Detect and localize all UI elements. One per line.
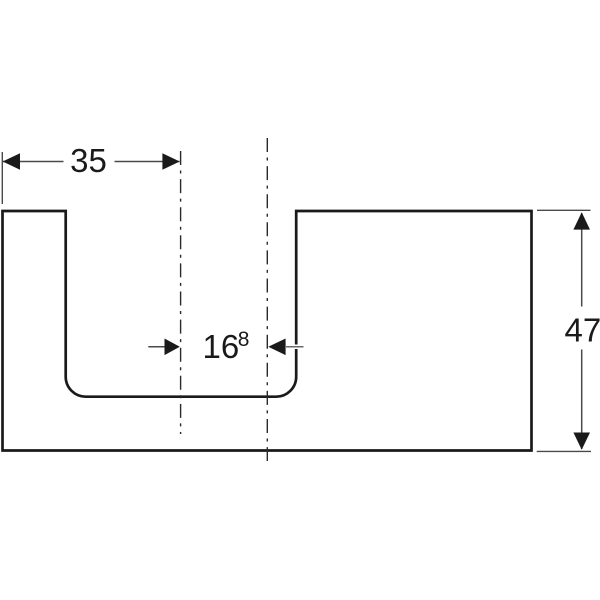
svg-text:47: 47 bbox=[565, 312, 600, 349]
svg-text:16: 16 bbox=[203, 328, 240, 365]
svg-text:8: 8 bbox=[238, 328, 250, 351]
svg-text:35: 35 bbox=[70, 142, 107, 179]
